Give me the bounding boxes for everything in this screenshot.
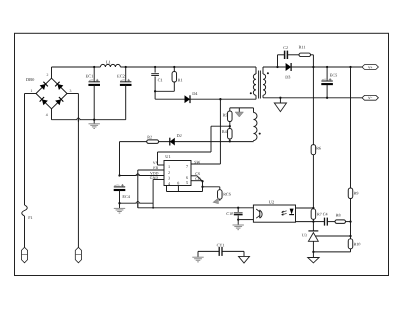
svg-text:5: 5 xyxy=(186,180,188,185)
svg-text:EC5: EC5 xyxy=(330,73,337,78)
svg-text:DB0: DB0 xyxy=(26,77,35,82)
svg-text:1: 1 xyxy=(168,164,170,169)
svg-text:V+: V+ xyxy=(368,65,372,69)
svg-text:U2: U2 xyxy=(269,200,274,205)
svg-text:CS: CS xyxy=(195,172,200,176)
svg-text:FB: FB xyxy=(153,166,158,170)
svg-text:U3: U3 xyxy=(302,233,307,238)
svg-text:R10: R10 xyxy=(354,241,361,246)
svg-text:EC1: EC1 xyxy=(86,73,94,78)
svg-text:8: 8 xyxy=(177,181,179,186)
svg-text:L1: L1 xyxy=(106,60,111,65)
svg-text:EC2: EC2 xyxy=(117,73,125,78)
svg-text:3: 3 xyxy=(70,89,72,93)
svg-text:R8: R8 xyxy=(336,212,341,217)
svg-text:2: 2 xyxy=(168,170,170,175)
svg-text:SW: SW xyxy=(194,160,200,165)
svg-text:2: 2 xyxy=(47,73,49,77)
svg-text:F1: F1 xyxy=(28,215,32,220)
svg-text:D3: D3 xyxy=(285,75,290,80)
svg-text:CY1: CY1 xyxy=(217,243,225,248)
svg-text:R9: R9 xyxy=(354,191,359,196)
svg-text:R1: R1 xyxy=(178,78,183,83)
svg-text:R7 C4: R7 C4 xyxy=(317,211,328,216)
svg-text:C2: C2 xyxy=(283,45,288,50)
svg-text:R11: R11 xyxy=(299,45,306,50)
svg-text:4: 4 xyxy=(46,113,48,117)
svg-text:R6: R6 xyxy=(316,145,321,150)
svg-text:R5: R5 xyxy=(223,113,228,118)
svg-text:GND: GND xyxy=(150,176,159,180)
svg-text:V−: V− xyxy=(368,96,372,100)
svg-text:D4: D4 xyxy=(192,91,198,96)
svg-text:VS: VS xyxy=(153,161,158,165)
svg-text:C10: C10 xyxy=(226,211,233,216)
svg-text:RCS: RCS xyxy=(223,191,231,196)
svg-text:3: 3 xyxy=(168,176,170,181)
svg-text:1: 1 xyxy=(31,89,33,93)
svg-text:CO: CO xyxy=(195,177,201,181)
svg-text:U1: U1 xyxy=(165,154,170,159)
svg-text:C1: C1 xyxy=(158,78,163,83)
svg-text:R2: R2 xyxy=(147,135,152,140)
svg-text:EC4: EC4 xyxy=(122,194,130,199)
svg-text:7: 7 xyxy=(186,164,188,169)
svg-text:D2: D2 xyxy=(177,133,182,138)
